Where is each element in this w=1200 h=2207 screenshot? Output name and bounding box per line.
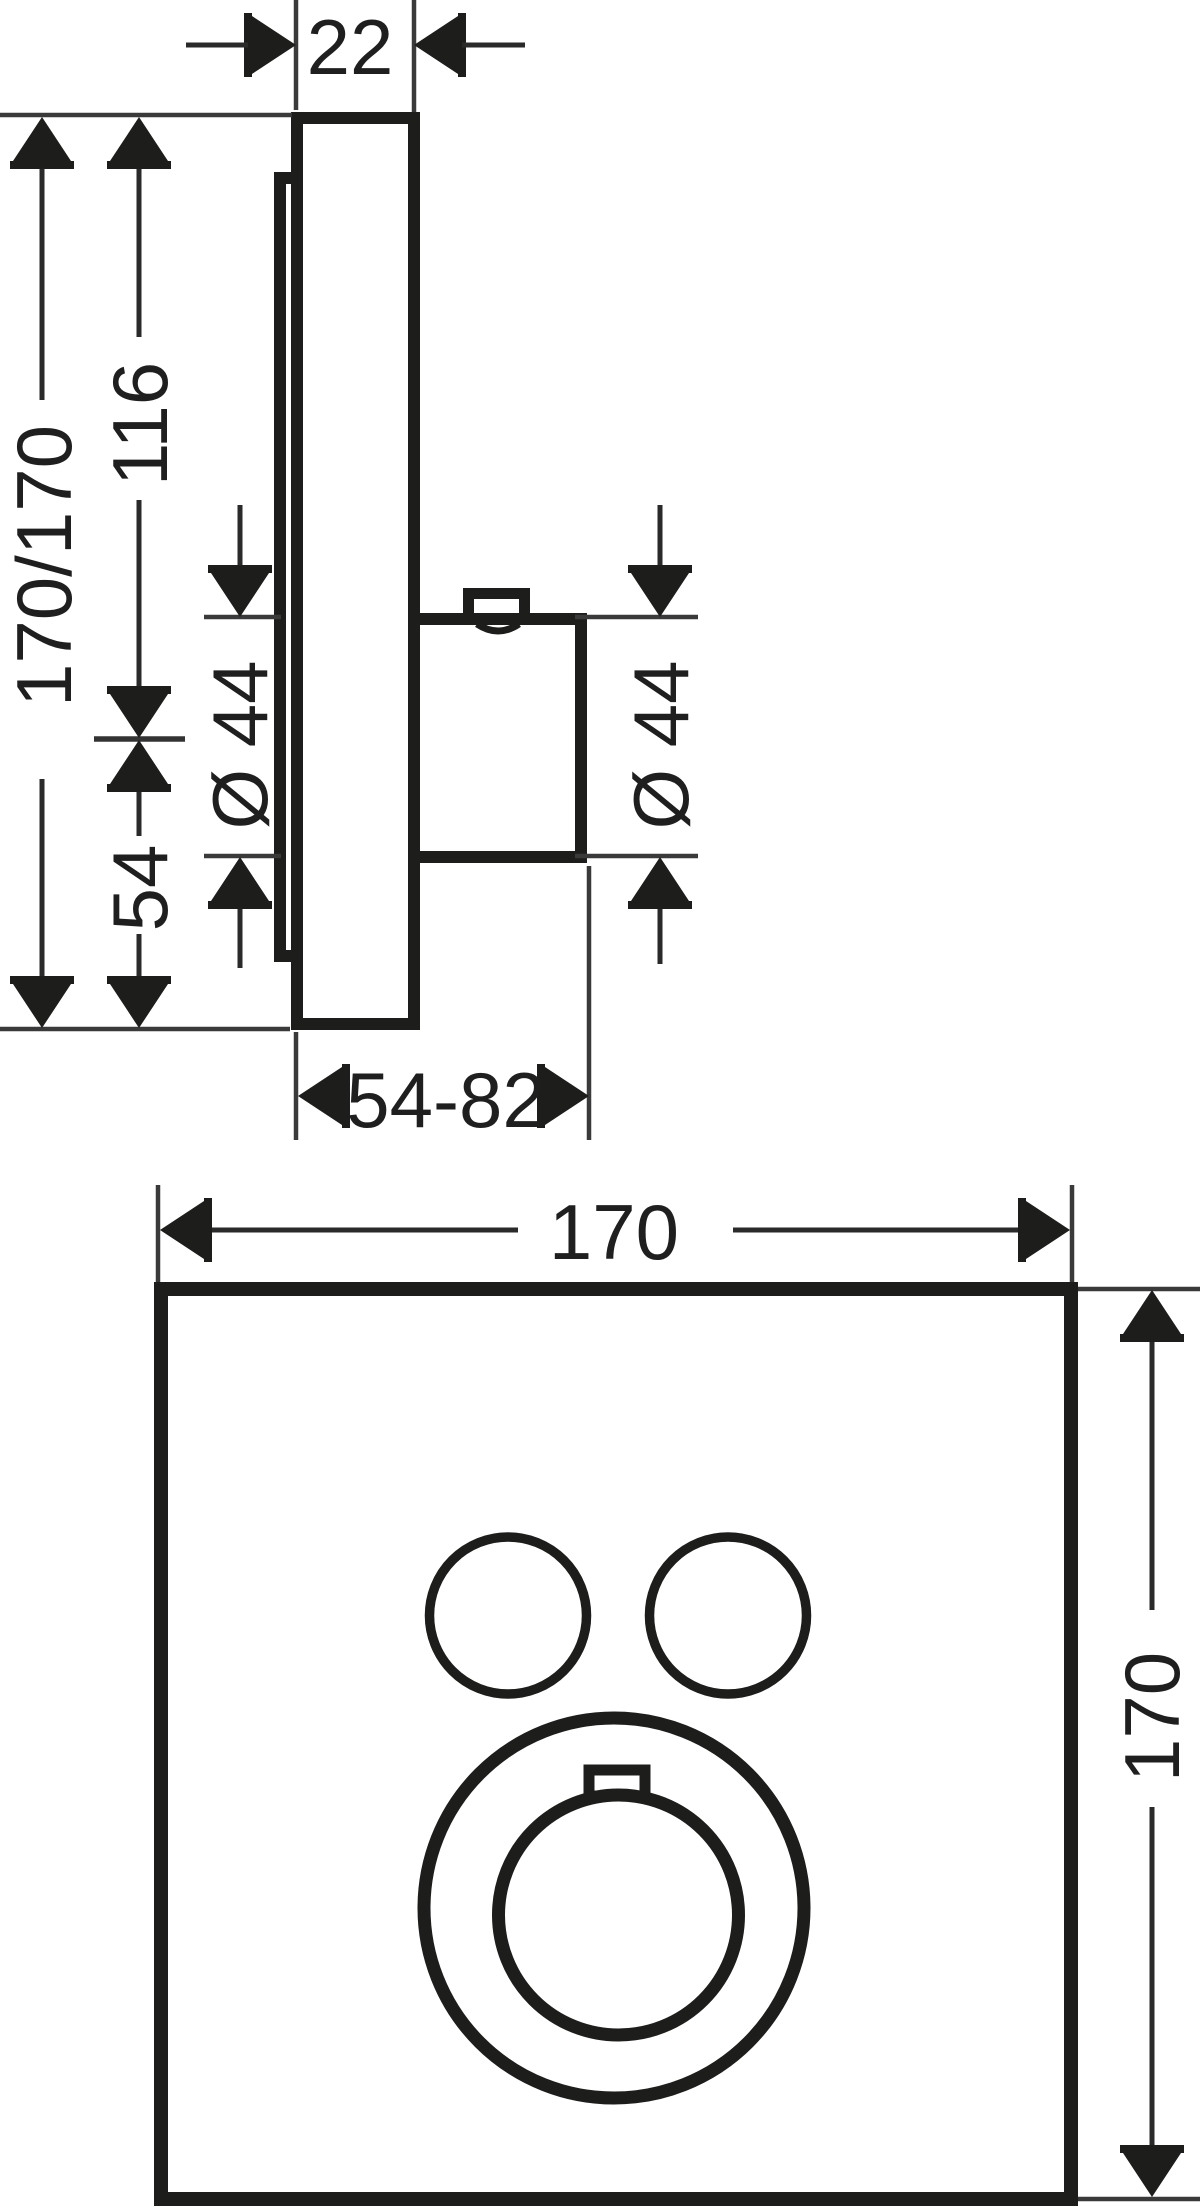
bowtie marker up arrow xyxy=(107,740,171,792)
right dim 170 top extension line xyxy=(1078,1287,1200,1292)
right dim 170 down arrow xyxy=(1120,2145,1184,2197)
wall plate (side view) xyxy=(297,118,414,1024)
svg-text:170: 170 xyxy=(549,1188,679,1276)
right dia44 top tick xyxy=(575,615,698,620)
face plate square xyxy=(161,1289,1071,2199)
back flange lip behind plate xyxy=(280,178,300,956)
extension line right of dim 22 xyxy=(412,0,417,122)
top dim 170 right extension line xyxy=(1070,1185,1075,1282)
small select button circle right xyxy=(650,1537,807,1694)
dim 54-82 left arrow xyxy=(298,1064,350,1128)
dim 54 lower shaft xyxy=(137,934,142,976)
notch base arc xyxy=(477,624,519,631)
dim 54-82 left extension line xyxy=(294,1032,299,1140)
small select button circle left xyxy=(430,1537,587,1694)
knob body (side view) xyxy=(414,619,581,857)
dim 22 left shaft xyxy=(186,43,248,48)
dim 54 upper shaft xyxy=(137,792,142,836)
right dia44 bottom tick xyxy=(575,854,698,859)
svg-text:170: 170 xyxy=(1108,1652,1196,1782)
thermostat outer circle xyxy=(424,1718,804,2098)
top dim 170 right arrow xyxy=(1018,1198,1070,1262)
mid tick at knob centre xyxy=(94,736,185,742)
top extension line (plate top) xyxy=(0,113,292,118)
dim 54-82 right extension line xyxy=(587,866,592,1140)
right dim 170 bottom extension line xyxy=(1078,2197,1200,2202)
dim 116 top arrow xyxy=(107,117,171,169)
right dia44 up arrow xyxy=(628,857,692,909)
right dia44 upper shaft xyxy=(658,505,663,565)
top dim 170 left extension line xyxy=(156,1185,161,1282)
right dim 170 upper shaft xyxy=(1150,1342,1155,1610)
right dim 170 up arrow xyxy=(1120,1290,1184,1342)
svg-text:116: 116 xyxy=(96,362,184,486)
left dia44 lower shaft xyxy=(238,909,243,968)
dim 170/170 top arrow xyxy=(10,117,74,169)
top dim 170 right shaft xyxy=(733,1228,1020,1233)
top dim 170 left arrow xyxy=(160,1198,212,1262)
left dia44 up arrow xyxy=(208,857,272,909)
dim 116 upper shaft xyxy=(137,169,142,337)
dim 116 lower shaft xyxy=(137,500,142,688)
svg-text:Ø 44: Ø 44 xyxy=(196,660,284,829)
extension line left of dim 22 xyxy=(294,0,299,110)
svg-text:54-82: 54-82 xyxy=(346,1056,546,1144)
left dia44 down arrow xyxy=(208,565,272,617)
dim 22 left arrow xyxy=(244,13,296,77)
dim 54 bottom arrow xyxy=(107,976,171,1028)
dim 22 right shaft xyxy=(462,43,525,48)
top dim 170 left shaft xyxy=(212,1228,518,1233)
dim 170/170 bottom arrow xyxy=(10,976,74,1028)
dim 54-82 right arrow xyxy=(537,1064,589,1128)
thermostat handle notch (front view) xyxy=(589,1770,645,1796)
dim 170/170 lower shaft xyxy=(40,779,45,976)
dim 22 right arrow xyxy=(414,13,466,77)
thermostat inner circle xyxy=(499,1795,739,2035)
left dia44 upper shaft xyxy=(238,505,243,565)
right dim 170 lower shaft xyxy=(1150,1807,1155,2147)
bowtie marker down arrow xyxy=(107,686,171,738)
notch on knob top (side view) xyxy=(469,594,525,622)
left dia44 top tick xyxy=(204,615,281,620)
dim 170/170 upper shaft xyxy=(40,169,45,400)
right dia44 lower shaft xyxy=(658,909,663,964)
right dia44 down arrow xyxy=(628,565,692,617)
bottom extension line (plate bottom) xyxy=(0,1027,290,1032)
svg-text:54: 54 xyxy=(96,845,184,932)
svg-text:Ø 44: Ø 44 xyxy=(617,660,705,829)
svg-text:22: 22 xyxy=(307,3,394,91)
svg-text:170/170: 170/170 xyxy=(0,425,88,707)
left dia44 bottom tick xyxy=(204,854,281,859)
